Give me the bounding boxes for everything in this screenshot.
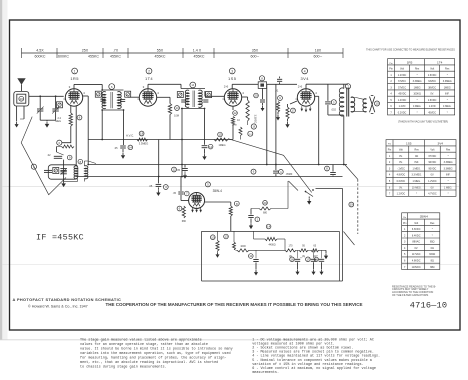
svg-text:35W-4: 35W-4 [213,189,223,193]
svg-text:1 MEG.: 1 MEG. [412,167,421,170]
svg-text:.01: .01 [275,89,279,93]
svg-text:8Ω: 8Ω [431,260,434,263]
svg-text:0V.: 0V. [399,161,403,164]
svg-text:(A): (A) [302,255,305,258]
svg-text:1000: 1000 [240,245,246,248]
svg-text:1MEG: 1MEG [218,144,225,147]
svg-text:4716—10: 4716—10 [410,301,448,311]
svg-text:to chassis during stage gain m: to chassis during stage gain measurement… [80,364,167,369]
svg-text:18: 18 [315,257,319,261]
svg-text:3.3MEG: 3.3MEG [413,80,422,83]
svg-text:38Ω: 38Ω [430,266,435,269]
svg-text:1.2VDC: 1.2VDC [398,74,407,77]
svg-text:*: * [447,74,448,77]
svg-text:*: * [447,111,448,114]
svg-text:0V.: 0V. [431,186,435,189]
svg-text:12: 12 [172,168,176,172]
svg-text:*: * [432,228,433,231]
svg-text:2-6: 2-6 [224,85,229,89]
svg-text:3.3MEG: 3.3MEG [444,167,453,170]
svg-text:57VDC: 57VDC [398,86,406,89]
svg-text:6.6VDC: 6.6VDC [412,228,421,231]
svg-text:INF.: INF. [414,161,419,164]
svg-text:10 MEG.: 10 MEG. [412,186,422,189]
svg-text:0.6VDC: 0.6VDC [397,180,406,183]
svg-text:1.2VD: 1.2VD [399,105,406,108]
svg-text:.45VDC: .45VDC [398,93,407,96]
svg-text:2.6VDC: 2.6VDC [428,74,437,77]
svg-text:*: * [448,193,449,196]
svg-text:for measuring, handling and pl: for measuring, handling and placement of… [80,355,226,360]
svg-text:4.8VDC: 4.8VDC [412,260,421,263]
svg-text:1T4: 1T4 [145,76,153,81]
svg-text:1.4VDC: 1.4VDC [398,99,407,102]
svg-text:680: 680 [182,220,187,223]
svg-text:value. It should be borne in m: value. It should be borne in mind that i… [80,347,233,352]
svg-text:(TAKEN WITH VACUUM TUBE VOLTME: (TAKEN WITH VACUUM TUBE VOLTMETER) [398,121,448,124]
svg-text:3V4: 3V4 [437,142,443,146]
svg-text:0Ω: 0Ω [415,155,418,158]
svg-text:55X: 55X [157,48,164,52]
svg-text:.05: .05 [149,185,153,188]
svg-text:Volt: Volt [400,68,404,71]
svg-text:4400Ω: 4400Ω [268,243,275,246]
svg-text:A.V.C.: A.V.C. [126,133,134,137]
svg-text:1S5: 1S5 [406,142,412,146]
svg-text:IF =455KC: IF =455KC [36,232,84,242]
svg-text:1 MEG.: 1 MEG. [444,186,453,189]
svg-text:.02: .02 [47,154,51,157]
svg-text:4.7VDC: 4.7VDC [428,193,437,196]
svg-text:4.5X: 4.5X [36,48,44,52]
svg-text:4 MEG.: 4 MEG. [443,105,452,108]
svg-text:16: 16 [20,97,24,101]
svg-text:.05: .05 [177,169,181,172]
svg-text:2: 2 [148,69,150,73]
svg-text:470K: 470K [232,125,238,127]
svg-text:600∼: 600∼ [250,55,259,59]
svg-text:*: * [447,99,448,102]
svg-text:63VDC: 63VDC [428,80,436,83]
svg-text:90VDC: 90VDC [428,161,436,164]
svg-text:13: 13 [224,235,228,239]
svg-text:1R5: 1R5 [70,76,79,81]
svg-text:1.4 X: 1.4 X [193,48,202,52]
svg-text:THIS CHART FOR USE CONNECTED T: THIS CHART FOR USE CONNECTED TO MEASURE … [366,49,455,52]
svg-text:100KΩ: 100KΩ [413,93,421,96]
svg-text:+: + [316,254,318,258]
svg-text:15: 15 [218,133,222,137]
svg-text:14: 14 [129,146,133,150]
svg-text:38VDC: 38VDC [428,86,436,89]
svg-text:85Ω: 85Ω [430,241,435,244]
svg-text:*: * [416,193,417,196]
svg-text:ment, etc., that an absolute r: ment, etc., that an absolute reading is … [80,360,218,365]
svg-text:90VDC: 90VDC [428,167,436,170]
svg-text:MEG: MEG [55,120,61,123]
svg-text:*: * [432,234,433,237]
svg-text:0V.: 0V. [399,155,403,158]
svg-text:660Ω: 660Ω [429,253,435,256]
svg-text:0.2VDC: 0.2VDC [398,111,407,114]
svg-text:+: + [300,256,302,260]
svg-text:1T4: 1T4 [437,61,443,65]
svg-text:600KC: 600KC [35,55,46,59]
svg-text:3.3MEG: 3.3MEG [254,115,257,124]
svg-text:1MEG: 1MEG [444,86,451,89]
svg-text:67VDC: 67VDC [398,80,406,83]
svg-text:1.2VDC: 1.2VDC [397,193,406,196]
svg-text:4 MEG.: 4 MEG. [413,105,422,108]
svg-text:1.2VDC: 1.2VDC [428,180,437,183]
svg-text:INF.: INF. [445,93,450,96]
svg-text:17: 17 [291,109,295,113]
svg-text:*: * [417,99,418,102]
svg-text:© Howard W. Sams & Co., Inc. 1: © Howard W. Sams & Co., Inc. 1947 [28,304,88,308]
svg-text:16: 16 [290,257,294,261]
svg-text:1S5: 1S5 [228,76,237,81]
svg-text:4: 4 [304,69,306,73]
svg-text:1: 1 [74,69,76,73]
svg-text:*: * [448,180,449,183]
svg-text:1.2VD: 1.2VD [429,105,436,108]
svg-text:Volt: Volt [430,149,434,152]
svg-text:0V.: 0V. [399,186,403,189]
svg-text:variables into the measurement: variables into the measurement operation… [80,351,231,356]
svg-text:13: 13 [175,106,179,110]
svg-text:455KC: 455KC [194,55,205,59]
svg-text:117VAC: 117VAC [412,253,421,256]
svg-text:14: 14 [267,225,271,229]
svg-text:3V4: 3V4 [301,76,310,81]
svg-text:45VDC: 45VDC [428,111,436,114]
svg-text:18: 18 [140,132,144,136]
svg-text:10M: 10M [174,115,179,118]
svg-text:THE COOPERATION OF THE MANUFAC: THE COOPERATION OF THE MANUFACTURER OF T… [106,302,363,307]
svg-text:11: 11 [249,254,252,258]
svg-text:.002: .002 [331,108,337,112]
svg-text:455KC: 455KC [110,55,121,59]
svg-text:.05MF: .05MF [286,173,293,176]
svg-text:*: * [448,155,449,158]
svg-text:Volt: Volt [430,68,434,71]
svg-text:2.6VDC: 2.6VDC [428,99,437,102]
svg-text:6.4VDC: 6.4VDC [412,234,421,237]
svg-text:Volt: Volt [399,149,403,152]
svg-text:0V.: 0V. [414,247,418,250]
svg-text:3.3MEG: 3.3MEG [139,141,149,145]
svg-text:1 MEG.: 1 MEG. [412,180,421,183]
svg-text:10: 10 [375,102,379,106]
svg-text:10: 10 [211,235,215,239]
svg-text:.7X: .7X [113,48,119,52]
svg-text:35W4: 35W4 [420,215,428,219]
svg-text:170: 170 [289,245,294,248]
svg-text:0Ω: 0Ω [431,247,434,250]
svg-text:.05: .05 [114,147,118,150]
svg-text:3: 3 [231,69,233,73]
svg-text:12: 12 [233,111,237,115]
svg-text:11: 11 [209,145,212,149]
svg-text:3.3MEG: 3.3MEG [443,80,452,83]
svg-text:20: 20 [263,201,267,205]
svg-text:0V.: 0V. [430,93,434,96]
svg-text:The stage gain measured values: The stage gain measured values listed ab… [80,338,202,343]
svg-text:600KC: 600KC [58,55,69,59]
svg-text:measurements.: measurements. [252,371,279,375]
svg-text:-.1VDC: -.1VDC [397,167,405,170]
svg-text:3.3MEG: 3.3MEG [444,161,453,164]
svg-text:*: * [417,74,418,77]
svg-text:19: 19 [350,203,354,207]
svg-text:2-6: 2-6 [298,85,303,89]
svg-text:455KC: 455KC [155,55,166,59]
svg-text:67VDC: 67VDC [428,155,436,158]
svg-text:25X: 25X [82,48,89,52]
svg-text:*: * [417,111,418,114]
svg-text:3.3 MEG.: 3.3 MEG. [411,174,422,177]
svg-text:1R5: 1R5 [407,61,413,65]
svg-text:4.8VDC: 4.8VDC [397,174,406,177]
svg-text:0V.: 0V. [431,174,435,177]
svg-text:OF THE FILTER CAPACITORS: OF THE FILTER CAPACITORS [392,293,429,297]
svg-text:values for an average operativ: values for an average operative stage, r… [80,342,208,347]
svg-text:A: A [33,165,35,169]
svg-text:88VAC: 88VAC [412,241,420,244]
svg-text:17: 17 [306,257,310,261]
svg-text:110VDC: 110VDC [412,266,421,269]
svg-text:35X: 35X [252,48,259,52]
svg-text:20: 20 [254,94,258,98]
svg-text:600∼: 600∼ [313,55,322,59]
svg-text:18X: 18X [315,48,322,52]
svg-text:680: 680 [263,212,268,215]
svg-text:1MEG: 1MEG [414,86,421,89]
svg-text:Volt: Volt [414,222,418,225]
svg-text:INF.: INF. [446,174,451,177]
svg-text:455KC: 455KC [88,55,99,59]
